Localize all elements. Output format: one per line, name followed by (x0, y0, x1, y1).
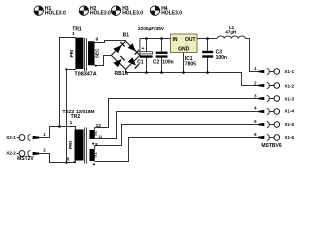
bridge rectifier B1 (111, 33, 140, 77)
svg-text:HOLE3.0: HOLE3.0 (90, 11, 111, 17)
diode TL (113, 45, 121, 53)
svg-text:1: 1 (70, 120, 73, 126)
wire L1 to X1-1 (245, 39, 258, 72)
svg-text:X1-3: X1-3 (285, 97, 295, 102)
node dots on GND rail (145, 71, 148, 74)
connector X2-1 (6, 132, 46, 141)
svg-text:MSTBV6: MSTBV6 (261, 143, 282, 149)
wire TR2 pin11 to X1-4 (95, 112, 259, 139)
svg-text:IN: IN (173, 37, 178, 43)
transformer TR2 (63, 109, 103, 165)
connector X1-3 (254, 94, 294, 102)
connector X1-4 (254, 106, 294, 115)
svg-text:T08347A: T08347A (74, 72, 96, 78)
diode BR (128, 57, 136, 65)
wire C3 taps (207, 39, 209, 73)
wire C1 taps (146, 39, 148, 73)
wire TR1 sec bottom to bridge AC left (95, 56, 112, 66)
svg-text:X1-4: X1-4 (285, 109, 295, 114)
connector X1-5 (254, 119, 294, 128)
wire TR2 pin12 to X1-3 (95, 99, 259, 131)
wire GND rail to X1-2 (126, 69, 259, 85)
wire TR2 pin7 to X1-6 (95, 138, 259, 162)
svg-text:S2: S2 (93, 130, 98, 136)
wire TR1 pin1 to X2-1 net riser (60, 38, 77, 127)
capacitor C3 100n (202, 50, 227, 61)
svg-text:RB1A: RB1A (114, 71, 128, 77)
svg-text:100n: 100n (162, 59, 173, 65)
svg-text:C1: C1 (137, 59, 144, 65)
svg-text:2200µF/35V: 2200µF/35V (138, 26, 165, 32)
svg-text:47µH: 47µH (225, 29, 237, 34)
svg-text:1: 1 (72, 31, 75, 37)
svg-text:7805: 7805 (185, 61, 196, 67)
node dots on + rail (145, 37, 148, 40)
op-amp/regulator IC1 7805 (171, 34, 198, 67)
node junction dot X2-2/TR1 (65, 161, 68, 164)
connector X1-6 (254, 132, 294, 141)
connector X1-1 (254, 66, 294, 75)
svg-text:X1-5: X1-5 (285, 122, 295, 127)
svg-text:6: 6 (67, 156, 70, 161)
svg-text:S1: S1 (93, 152, 98, 158)
transformer TR1 (65, 26, 99, 77)
connector X2-2 (6, 148, 46, 157)
wire IC1 OUT to L1 (197, 38, 217, 40)
connector X1-2 (254, 80, 294, 88)
wire IC1 GND pin (183, 53, 185, 73)
svg-text:GND: GND (178, 47, 190, 53)
svg-text:+: + (141, 46, 144, 52)
svg-text:HOLE3.0: HOLE3.0 (161, 11, 182, 17)
svg-text:PRI: PRI (69, 50, 74, 58)
svg-text:X1-2: X1-2 (285, 83, 295, 88)
wire X2-2 net: connector to TR2 pin6 (39, 154, 75, 163)
hole H4 (150, 6, 182, 17)
wire X2-1 net: connector to TR2 pin1 (39, 127, 75, 138)
svg-text:12: 12 (96, 123, 102, 128)
svg-text:X2-2: X2-2 (6, 151, 16, 156)
node junction dot X2-1/TR1 (58, 125, 61, 128)
wire TR1 pin6 down to X2-2 net (67, 70, 77, 163)
svg-text:100n: 100n (216, 55, 227, 61)
wire C2 taps (161, 39, 163, 73)
inductor L1 (217, 36, 245, 39)
svg-text:11: 11 (98, 135, 102, 139)
hole H2 (79, 6, 111, 17)
wire bridge + output rail to IC1 IN (140, 39, 171, 56)
wire TR2 pin8 to X1-5 (95, 125, 259, 150)
svg-text:B1: B1 (123, 33, 130, 39)
diode TR (128, 43, 136, 51)
svg-text:TR2: TR2 (71, 114, 81, 120)
svg-text:9: 9 (95, 37, 98, 43)
svg-text:X1-1: X1-1 (285, 69, 295, 74)
svg-text:SEC: SEC (95, 48, 100, 58)
svg-text:MST2V: MST2V (17, 156, 34, 162)
diode BL (113, 59, 121, 67)
svg-text:PRI: PRI (68, 141, 73, 149)
capacitor C1 (electrolytic 2200uF/35V) (137, 26, 165, 66)
capacitor C2 100n (153, 52, 174, 66)
svg-text:OUT: OUT (185, 37, 196, 43)
hole H1 (34, 6, 66, 17)
svg-text:C2: C2 (153, 59, 160, 65)
svg-text:HOLE3.0: HOLE3.0 (45, 11, 66, 17)
svg-text:X2-1: X2-1 (6, 135, 16, 140)
svg-text:X1-6: X1-6 (285, 135, 295, 140)
wire TR1 pin9 to bridge AC top (95, 41, 126, 43)
svg-text:HOLE3.0: HOLE3.0 (122, 11, 143, 17)
hole H3 (111, 6, 143, 17)
